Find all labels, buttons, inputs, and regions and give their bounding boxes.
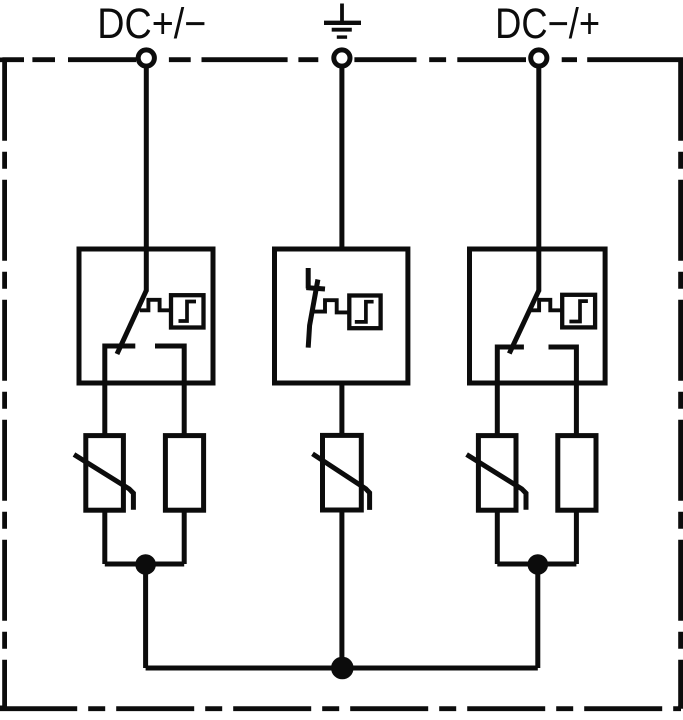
U1 trip device box <box>171 295 204 327</box>
enclosure border top (dash-dot) <box>2 58 680 63</box>
U2 fixed terminal stub <box>306 268 311 289</box>
U1 trip linkage <box>140 300 171 311</box>
wire F1 bottom leg <box>182 510 187 564</box>
disconnector unit U1 box <box>79 249 213 383</box>
U1 switch blade <box>117 291 146 355</box>
wire terminal X3 to disconnector U3 <box>536 67 541 292</box>
enclosure border right (dash-dot) <box>678 60 683 707</box>
wire node A to bottom bus <box>143 565 148 669</box>
node B center junction dot <box>331 657 354 680</box>
fuse F2 body <box>558 436 596 511</box>
U2 switch blade <box>308 280 318 348</box>
U3 trip device step symbol <box>569 301 588 321</box>
svg-text:DC+/−: DC+/− <box>97 0 206 48</box>
terminal X1 DC+/- <box>138 50 154 66</box>
ground symbol <box>324 4 361 38</box>
U2 trip device step symbol <box>355 302 374 322</box>
bottom bus wire <box>146 666 538 671</box>
varistor RV1 body <box>86 436 124 511</box>
U3 switch blade <box>509 291 539 354</box>
enclosure border left (dash-dot) <box>2 60 7 707</box>
varistor RV3 diagonal <box>467 455 526 510</box>
U3 left fixed contact and leg <box>497 347 524 436</box>
wire node C to bottom bus <box>535 565 540 669</box>
U2 trip linkage <box>314 300 350 312</box>
wire RV3-F2 junction bar <box>497 562 576 567</box>
disconnector unit U3 box <box>470 249 606 383</box>
wire RV1 bottom leg <box>102 510 107 564</box>
wire RV1-F1 junction bar <box>105 562 184 567</box>
wire U2 to RV2 <box>339 383 344 435</box>
wire F2 bottom leg <box>574 510 579 564</box>
varistor RV3 body <box>478 436 516 511</box>
disconnector unit U2 box <box>275 249 408 383</box>
node A junction dot <box>135 554 156 575</box>
wire RV2 to bottom bus <box>339 510 344 668</box>
U3 right fixed contact and leg <box>549 347 577 436</box>
varistor RV2 diagonal <box>313 454 370 510</box>
U2 trip device box <box>349 296 380 329</box>
enclosure border bottom (dash-dot) <box>2 706 681 709</box>
terminal X3 DC-/+ <box>531 50 547 66</box>
wire terminal X1 to disconnector U1 <box>144 67 149 292</box>
U3 trip device box <box>562 295 595 328</box>
wire RV3 bottom leg <box>495 510 500 564</box>
node C junction dot <box>528 554 549 575</box>
varistor RV2 body <box>323 435 362 510</box>
svg-text:DC−/+: DC−/+ <box>495 0 600 48</box>
U1 trip device step symbol <box>179 302 197 322</box>
terminal X2 ground <box>334 50 350 66</box>
U3 trip linkage <box>531 300 562 311</box>
U1 left fixed contact and leg <box>105 346 136 436</box>
U1 right fixed contact and leg <box>155 346 184 436</box>
fuse F1 body <box>165 436 203 511</box>
wire terminal X2 to disconnector U2 <box>339 67 344 252</box>
U2 contact tick <box>306 288 325 289</box>
varistor RV1 diagonal <box>74 455 133 510</box>
